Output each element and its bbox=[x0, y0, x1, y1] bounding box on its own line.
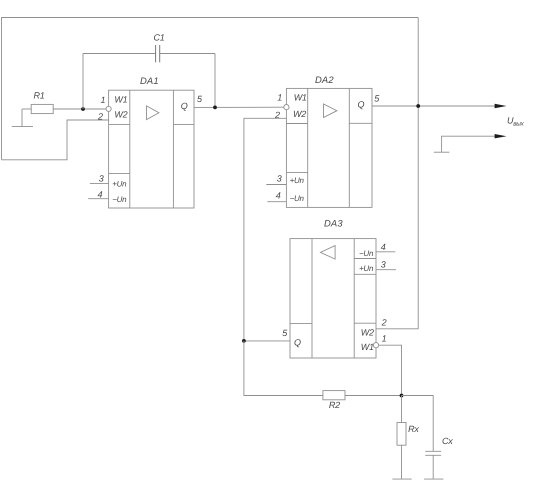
pin 2 label DA1 bbox=[97, 111, 103, 121]
resistor R1 bbox=[31, 90, 53, 113]
svg-text:1: 1 bbox=[382, 333, 387, 343]
wire DA2 output to arrow bbox=[372, 105, 496, 107]
svg-text:+Un: +Un bbox=[290, 176, 305, 185]
pin 3 label DA1 bbox=[99, 174, 104, 184]
wire C1 right vertical bbox=[214, 54, 216, 108]
wire pin4 stub DA3 bbox=[376, 251, 395, 253]
svg-text:2: 2 bbox=[381, 318, 387, 328]
ground (under Rx) bbox=[392, 478, 411, 480]
svg-text:DA2: DA2 bbox=[315, 74, 334, 85]
wire pin3 stub DA3 bbox=[376, 269, 396, 271]
svg-text:Rx: Rx bbox=[408, 424, 419, 434]
svg-text:4: 4 bbox=[276, 190, 281, 200]
node Uvyh output label bbox=[507, 116, 525, 128]
svg-text:W2: W2 bbox=[361, 327, 374, 337]
op-amp U3 DA3 bbox=[290, 217, 376, 358]
svg-text:W1: W1 bbox=[294, 92, 307, 102]
svg-text:Q: Q bbox=[358, 99, 365, 109]
svg-text:−Un: −Un bbox=[112, 195, 127, 204]
svg-text:+Un: +Un bbox=[112, 179, 127, 188]
svg-text:1: 1 bbox=[101, 95, 106, 105]
wire node to Cx branch bbox=[402, 395, 434, 397]
pin 1 circle DA1 bbox=[106, 106, 111, 111]
wire DA3 pin1 down to node bbox=[379, 345, 402, 395]
pin 2 label DA2 bbox=[274, 110, 280, 120]
wire Rx to ground bbox=[401, 445, 403, 479]
ground (under Cx) bbox=[424, 478, 443, 480]
pin 5 label DA1 bbox=[197, 94, 203, 104]
capacitor Cx bbox=[425, 396, 453, 480]
wire down and right to R2 bbox=[244, 341, 323, 396]
svg-text:DA1: DA1 bbox=[140, 75, 159, 86]
pin 1 circle DA2 bbox=[284, 105, 289, 110]
svg-text:3: 3 bbox=[99, 174, 104, 184]
node junction R2/Rx/Cx bbox=[400, 394, 404, 398]
wire node down to Rx bbox=[401, 396, 403, 423]
svg-text:R1: R1 bbox=[34, 90, 45, 100]
node junction output/feedback bbox=[416, 104, 420, 108]
capacitor C1 bbox=[83, 33, 215, 63]
wire R2 to node bbox=[345, 395, 402, 397]
resistor R2 bbox=[323, 391, 345, 410]
svg-text:C1: C1 bbox=[154, 33, 165, 43]
pin 1 label DA1 bbox=[101, 95, 106, 105]
svg-text:R2: R2 bbox=[329, 400, 340, 410]
svg-text:W1: W1 bbox=[361, 342, 374, 352]
svg-text:−Un: −Un bbox=[359, 249, 374, 258]
pin 1 label DA2 bbox=[277, 92, 282, 102]
pin 4 label DA1 bbox=[98, 189, 103, 199]
node junction C1 right tap bbox=[213, 106, 217, 110]
wire C1 left vertical bbox=[82, 54, 84, 110]
op-amp U2 DA2 bbox=[286, 74, 372, 208]
svg-text:DA3: DA3 bbox=[324, 217, 343, 228]
wire R1 to DA1 pin1 bbox=[53, 108, 106, 110]
svg-text:3: 3 bbox=[277, 173, 282, 183]
pin 3 label DA2 bbox=[277, 173, 282, 183]
svg-text:1: 1 bbox=[277, 92, 282, 102]
svg-text:−Un: −Un bbox=[290, 194, 305, 203]
wire pin4 stub DA1 bbox=[88, 198, 108, 200]
output arrow bbox=[495, 104, 507, 108]
wire DA3 Q output bbox=[244, 340, 290, 342]
pin 2 label DA3 bbox=[381, 318, 387, 328]
wire ground to R1 bbox=[22, 108, 31, 110]
pin 4 label DA2 bbox=[276, 190, 281, 200]
wire left vertical and top horizontal bbox=[2, 18, 419, 160]
wire pin3 stub DA1 bbox=[90, 182, 109, 184]
pin 1 circle DA3 bbox=[373, 343, 378, 348]
node junction C1 left tap bbox=[81, 107, 85, 111]
svg-text:5: 5 bbox=[197, 94, 203, 104]
pin 3 label DA3 bbox=[381, 260, 386, 270]
svg-text:4: 4 bbox=[381, 242, 386, 252]
ground (output common) bbox=[434, 151, 450, 153]
pin 5 label DA2 bbox=[374, 94, 380, 104]
svg-text:Q: Q bbox=[181, 101, 188, 111]
wire DA2 pin2 to vertical bbox=[244, 118, 287, 341]
wire pin4 stub DA2 bbox=[267, 201, 286, 203]
pin 5 label DA3 bbox=[282, 328, 288, 338]
svg-text:W2: W2 bbox=[293, 109, 306, 119]
node junction Q/feedback bbox=[242, 339, 246, 343]
svg-text:2: 2 bbox=[97, 111, 103, 121]
svg-text:4: 4 bbox=[98, 189, 103, 199]
resistor Rx bbox=[397, 423, 419, 446]
svg-text:5: 5 bbox=[374, 94, 380, 104]
svg-text:Uвых: Uвых bbox=[507, 116, 525, 128]
op-amp U1 DA1 bbox=[109, 75, 194, 208]
svg-text:Cx: Cx bbox=[442, 436, 453, 446]
svg-text:W1: W1 bbox=[114, 95, 127, 105]
pin 1 label DA3 bbox=[382, 333, 387, 343]
svg-text:+Un: +Un bbox=[359, 264, 374, 273]
wire right vertical down to DA3 W2 bbox=[376, 18, 418, 329]
svg-text:5: 5 bbox=[282, 328, 288, 338]
svg-text:3: 3 bbox=[381, 260, 386, 270]
ground (input) bbox=[12, 109, 33, 127]
wire feedback from DA1 pin2 left/down bbox=[2, 120, 109, 160]
wire DA1 out to DA2 pin1 bbox=[194, 106, 284, 108]
wire output common to arrow bbox=[442, 136, 496, 152]
pin 4 label DA3 bbox=[381, 242, 386, 252]
svg-text:W2: W2 bbox=[114, 110, 127, 120]
wire pin3 stub DA2 bbox=[266, 184, 286, 186]
output common arrow bbox=[495, 134, 507, 138]
svg-text:Q: Q bbox=[294, 337, 301, 347]
